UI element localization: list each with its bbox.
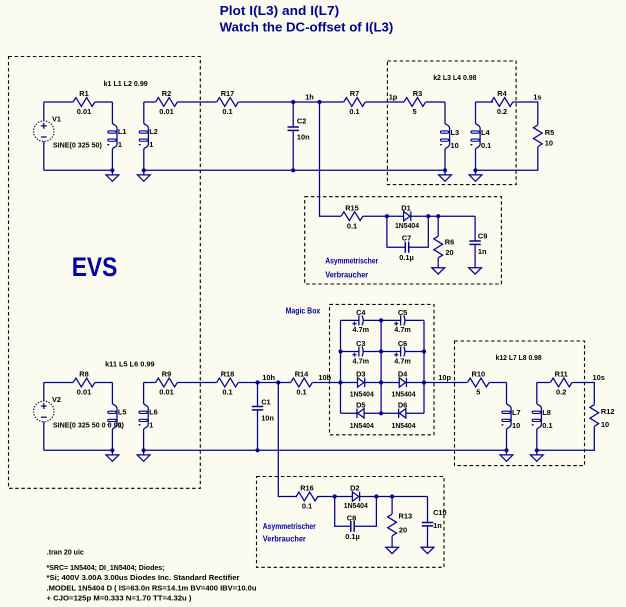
- svg-text:0.01: 0.01: [159, 107, 173, 116]
- diode D4: [381, 370, 424, 399]
- capacitor C6: [381, 339, 424, 365]
- svg-text:D2: D2: [350, 484, 359, 493]
- svg-text:R9: R9: [162, 370, 171, 379]
- svg-text:4.7m: 4.7m: [353, 356, 370, 365]
- model comment line 2: [47, 573, 240, 582]
- svg-text:0.1µ: 0.1µ: [345, 532, 360, 541]
- k1 coupling directive: [104, 79, 148, 88]
- capacitor C2: [288, 102, 311, 170]
- svg-text:1: 1: [149, 140, 153, 149]
- junction L7 bottom: [504, 448, 508, 452]
- resistor R9: [156, 370, 178, 397]
- svg-text:0.1: 0.1: [347, 221, 357, 230]
- svg-text:.MODEL 1N5404 D ( IS=63.0n RS: .MODEL 1N5404 D ( IS=63.0n RS=14.1m BV=4…: [47, 583, 257, 592]
- svg-text:D1: D1: [401, 203, 410, 212]
- svg-text:R14: R14: [295, 370, 309, 379]
- wire R8 to L5: [95, 382, 112, 384]
- junction 1h feed: [317, 100, 321, 104]
- svg-text:.tran 20 uic: .tran 20 uic: [47, 547, 84, 556]
- svg-text:*SRC= 1N5404; DI_1N5404; Diode: *SRC= 1N5404; DI_1N5404; Diodes;: [47, 563, 165, 572]
- Magic Box label: [286, 306, 321, 316]
- wire R16 to D2: [317, 496, 352, 498]
- svg-text:L5: L5: [118, 408, 127, 417]
- svg-text:10: 10: [601, 420, 609, 429]
- svg-text:10n: 10n: [261, 413, 274, 422]
- junction C1 top: [255, 380, 259, 384]
- svg-text:V2: V2: [52, 395, 61, 404]
- capacitor C1: [252, 383, 275, 451]
- wire L8 to R11: [537, 382, 550, 384]
- wire L6 to R9: [144, 382, 156, 384]
- svg-text:20: 20: [445, 248, 453, 257]
- wire V2 to R8: [44, 382, 73, 384]
- k2 coupling directive: [433, 73, 476, 82]
- resistor R18: [217, 370, 239, 397]
- svg-text:D4: D4: [398, 370, 408, 379]
- wire R9 to R18: [178, 382, 217, 384]
- wire R10 to L7: [489, 382, 506, 384]
- svg-text:0.1µ: 0.1µ: [399, 253, 414, 262]
- svg-text:R1: R1: [79, 89, 88, 98]
- resistor R13: [388, 497, 412, 543]
- svg-text:R2: R2: [162, 89, 171, 98]
- junction C8 left: [333, 494, 337, 498]
- svg-text:1N5404: 1N5404: [392, 390, 417, 399]
- ground at L4: [469, 170, 482, 181]
- junction L4 bottom: [473, 168, 477, 172]
- svg-text:R18: R18: [221, 370, 235, 379]
- svg-text:4.7m: 4.7m: [353, 325, 370, 334]
- svg-text:Asymmetrischer: Asymmetrischer: [325, 255, 379, 265]
- wire R14 to Magic Box: [313, 382, 341, 384]
- svg-text:1N5404: 1N5404: [392, 421, 417, 430]
- node 10s label: [593, 373, 605, 382]
- ground at R6: [432, 263, 445, 274]
- svg-text:R15: R15: [345, 203, 359, 212]
- wire D2 to C10: [360, 496, 428, 498]
- ground at R13: [386, 543, 399, 554]
- svg-text:1N5404: 1N5404: [350, 421, 375, 430]
- svg-text:0.1: 0.1: [542, 421, 552, 430]
- svg-text:C10: C10: [433, 508, 447, 517]
- node 10p label: [438, 373, 451, 382]
- wire L4 to R4: [476, 101, 494, 103]
- resistor R17: [217, 89, 239, 116]
- inductor L6: [138, 383, 158, 451]
- svg-text:R12: R12: [601, 407, 615, 416]
- magic box middle rail: [380, 320, 382, 413]
- inductor L4: [470, 102, 491, 170]
- svg-text:L4: L4: [481, 128, 491, 137]
- svg-text:R16: R16: [300, 484, 314, 493]
- bottom secondary rail: [144, 449, 507, 451]
- wire R1 to L1: [95, 101, 112, 103]
- diode D1: [395, 203, 420, 230]
- k11 coupling directive: [105, 360, 155, 369]
- voltage source V1: [34, 102, 103, 170]
- svg-text:L6: L6: [149, 408, 158, 417]
- resistor R4: [491, 89, 513, 116]
- dashed box k12 transformer: [455, 341, 585, 466]
- svg-text:SINE(0 325 50): SINE(0 325 50): [53, 140, 103, 149]
- dashed box k2 transformer: [387, 61, 516, 185]
- junction 10h feed: [276, 380, 280, 384]
- magic box right rail: [423, 320, 425, 413]
- resistor R12: [590, 405, 615, 429]
- dashed box EVS block: [9, 57, 201, 489]
- svg-text:k1 L1 L2 0.99: k1 L1 L2 0.99: [104, 79, 148, 88]
- svg-text:Plot I(L3) and I(L7): Plot I(L3) and I(L7): [220, 4, 340, 18]
- svg-text:R11: R11: [555, 370, 568, 379]
- svg-text:L7: L7: [512, 408, 521, 417]
- junction left rail row3: [338, 380, 342, 384]
- inductor L5: [107, 383, 127, 451]
- svg-text:L2: L2: [149, 127, 158, 136]
- junction C7 left: [385, 214, 389, 218]
- svg-text:R13: R13: [399, 512, 413, 521]
- resistor R7: [344, 89, 366, 116]
- svg-text:R4: R4: [497, 89, 507, 98]
- resistor R5: [533, 125, 554, 148]
- svg-text:4.7m: 4.7m: [394, 356, 411, 365]
- ground at L7: [500, 450, 513, 461]
- svg-text:10: 10: [545, 139, 553, 148]
- resistor R10: [468, 370, 490, 397]
- capacitor C8: [335, 497, 377, 542]
- svg-text:1n: 1n: [433, 521, 442, 530]
- junction right rail row2: [422, 349, 426, 353]
- svg-text:C4: C4: [356, 308, 366, 317]
- svg-text:Verbraucher: Verbraucher: [325, 269, 369, 279]
- junction R13 top: [390, 494, 394, 498]
- wire node 10h down to lower Verbraucher: [278, 383, 297, 497]
- node 1s label: [533, 93, 541, 102]
- resistor R3: [404, 89, 426, 116]
- tran directive: [47, 547, 84, 556]
- junction middle rail row2: [379, 349, 383, 353]
- svg-text:L1: L1: [118, 127, 127, 136]
- svg-text:Magic Box: Magic Box: [286, 306, 321, 316]
- junction C2 bottom: [291, 168, 295, 172]
- upper Verbraucher label: [325, 255, 379, 279]
- diode D5: [341, 401, 382, 430]
- svg-text:0.2: 0.2: [556, 388, 566, 397]
- inductor L2: [138, 102, 158, 170]
- k12 coupling directive: [496, 353, 542, 362]
- wire R17 to R7 through node 1h: [239, 101, 344, 103]
- svg-text:0.1: 0.1: [481, 141, 491, 150]
- svg-text:R3: R3: [413, 89, 422, 98]
- svg-text:10h: 10h: [262, 373, 275, 382]
- ground at L5: [106, 450, 119, 461]
- inductor L8: [531, 383, 552, 451]
- svg-text:L3: L3: [451, 128, 460, 137]
- inductor L1: [107, 102, 127, 170]
- dashed box lower Asymmetrischer Verbraucher: [257, 477, 445, 568]
- capacitor C10: [422, 497, 447, 543]
- wire V1 ground rail: [44, 169, 113, 171]
- wire R18 to R14: [239, 382, 291, 384]
- capacitor C5: [381, 308, 424, 334]
- svg-text:Verbraucher: Verbraucher: [263, 534, 307, 544]
- diode D3: [341, 370, 382, 399]
- junction L3 bottom: [443, 168, 447, 172]
- resistor R8: [73, 370, 95, 397]
- svg-text:Asymmetrischer: Asymmetrischer: [263, 521, 317, 531]
- svg-text:0.2: 0.2: [497, 107, 507, 116]
- svg-text:1h: 1h: [305, 93, 314, 102]
- wire R5 to L4 bottom: [476, 147, 538, 171]
- wire R15 to D1: [363, 215, 404, 217]
- capacitor C3: [341, 339, 382, 365]
- dashed box Magic Box: [330, 304, 435, 434]
- diode D6: [381, 401, 424, 430]
- wire V2 ground rail: [44, 449, 113, 451]
- node 10b label: [318, 373, 331, 382]
- svg-text:10: 10: [451, 141, 459, 150]
- voltage source V2: [34, 383, 125, 451]
- lower Verbraucher label: [263, 521, 317, 544]
- junction right rail row3: [422, 380, 426, 384]
- junction left rail row2: [338, 349, 342, 353]
- node 1h label: [305, 93, 314, 102]
- junction R6 top: [436, 214, 440, 218]
- svg-text:D3: D3: [356, 370, 365, 379]
- svg-text:k12 L7 L8 0.98: k12 L7 L8 0.98: [496, 353, 542, 362]
- svg-text:C9: C9: [478, 231, 487, 240]
- diode D2: [344, 484, 369, 511]
- model comment line 1: [47, 563, 165, 572]
- ground at L6: [137, 450, 150, 461]
- svg-text:0.01: 0.01: [159, 388, 173, 397]
- svg-text:0.01: 0.01: [77, 107, 91, 116]
- wire D1 to C9: [411, 215, 475, 217]
- wire R7 to R3: [366, 101, 405, 103]
- top secondary rail: [144, 169, 445, 171]
- title text line 2: [220, 20, 394, 34]
- svg-text:R17: R17: [221, 89, 235, 98]
- svg-text:0.1: 0.1: [302, 502, 312, 511]
- svg-text:Watch the DC-offset of I(L3): Watch the DC-offset of I(L3): [220, 20, 394, 34]
- svg-text:10b: 10b: [318, 373, 331, 382]
- title text line 1: [220, 4, 340, 18]
- svg-text:R5: R5: [545, 128, 554, 137]
- svg-text:C2: C2: [297, 116, 306, 125]
- resistor R1: [73, 89, 95, 116]
- svg-text:0.1: 0.1: [349, 107, 359, 116]
- junction L1 bottom: [110, 168, 114, 172]
- svg-text:5: 5: [476, 388, 480, 397]
- ground at L3: [439, 170, 452, 181]
- svg-text:1N5404: 1N5404: [344, 501, 369, 510]
- svg-text:10s: 10s: [593, 373, 605, 382]
- svg-text:1: 1: [118, 420, 122, 429]
- svg-text:10n: 10n: [297, 132, 310, 141]
- wire R12 to L8 bottom: [537, 427, 595, 451]
- svg-text:0.1: 0.1: [296, 388, 306, 397]
- svg-text:C7: C7: [402, 233, 411, 242]
- svg-text:R8: R8: [79, 370, 88, 379]
- ground at C9: [469, 263, 482, 274]
- svg-text:k11 L5 L6 0.99: k11 L5 L6 0.99: [105, 360, 155, 369]
- capacitor C7: [387, 216, 428, 262]
- svg-text:*Si; 400V 3.00A 3.00us Di: *Si; 400V 3.00A 3.00us Diodes Inc. Stand…: [47, 573, 240, 582]
- node 10h label: [262, 373, 275, 382]
- svg-text:D5: D5: [356, 401, 365, 410]
- svg-text:20: 20: [399, 526, 407, 535]
- svg-text:1: 1: [149, 420, 153, 429]
- junction L8 bottom: [535, 448, 539, 452]
- svg-text:R10: R10: [472, 370, 486, 379]
- resistor R14: [291, 370, 313, 397]
- svg-text:+ CJO=125p M=0.333 N=1.70 TT=: + CJO=125p M=0.333 N=1.70 TT=4.32u ): [47, 594, 193, 603]
- wire V1 to R1: [44, 101, 73, 103]
- capacitor C4: [341, 308, 382, 334]
- junction middle rail row3: [379, 380, 383, 384]
- junction C8 right: [374, 494, 378, 498]
- svg-text:R7: R7: [350, 89, 359, 98]
- junction L5 bottom: [110, 448, 114, 452]
- resistor R6: [434, 216, 454, 263]
- dashed box upper Asymmetrischer Verbraucher: [305, 197, 502, 284]
- wire Magic Box to R10: [424, 382, 467, 384]
- wire R11 to R12: [572, 383, 594, 405]
- svg-text:D6: D6: [398, 401, 407, 410]
- ground at L1: [106, 170, 119, 181]
- resistor R2: [156, 89, 178, 116]
- wire R3 to L3: [426, 101, 445, 103]
- svg-text:1N5404: 1N5404: [395, 221, 420, 230]
- svg-text:1N5404: 1N5404: [350, 390, 375, 399]
- resistor R15: [341, 203, 363, 230]
- wire L2 to R2: [144, 101, 156, 103]
- wire R2 to R17: [178, 101, 217, 103]
- wire R4 to R5: [513, 102, 538, 125]
- svg-text:1p: 1p: [389, 93, 398, 102]
- svg-text:1: 1: [118, 140, 122, 149]
- junction middle rail row4: [379, 411, 383, 415]
- wire node 1h down to upper Verbraucher: [320, 102, 342, 216]
- svg-text:10: 10: [512, 421, 520, 430]
- svg-text:C5: C5: [398, 308, 407, 317]
- model directive line 4: [47, 594, 193, 603]
- svg-text:L8: L8: [542, 408, 551, 417]
- capacitor C9: [469, 216, 487, 263]
- svg-text:C1: C1: [261, 397, 270, 406]
- ground at C10: [421, 543, 434, 554]
- svg-text:4.7m: 4.7m: [394, 325, 411, 334]
- svg-text:C8: C8: [347, 514, 356, 523]
- junction C7 right: [426, 214, 430, 218]
- ground at L8: [530, 450, 543, 461]
- svg-text:k2 L3 L4 0.98: k2 L3 L4 0.98: [433, 73, 476, 82]
- node 1p label: [389, 93, 398, 102]
- svg-text:5: 5: [412, 107, 416, 116]
- model directive line 3: [47, 583, 257, 592]
- resistor R11: [550, 370, 572, 397]
- svg-text:C6: C6: [398, 339, 407, 348]
- svg-text:V1: V1: [52, 115, 61, 124]
- svg-text:EVS: EVS: [72, 252, 118, 282]
- ground at L2: [137, 170, 150, 181]
- EVS label: [72, 252, 118, 282]
- svg-text:1s: 1s: [533, 93, 541, 102]
- junction L2 bottom: [142, 168, 146, 172]
- svg-text:0.1: 0.1: [222, 388, 232, 397]
- inductor L3: [440, 102, 460, 170]
- svg-text:R6: R6: [445, 237, 454, 246]
- svg-text:C3: C3: [356, 339, 365, 348]
- junction C1 bottom: [255, 448, 259, 452]
- inductor L7: [501, 383, 521, 451]
- svg-text:1n: 1n: [478, 247, 487, 256]
- svg-text:0.01: 0.01: [77, 388, 91, 397]
- junction C2 top: [291, 100, 295, 104]
- svg-text:0.1: 0.1: [222, 107, 232, 116]
- svg-text:10p: 10p: [438, 373, 451, 382]
- resistor R16: [296, 484, 318, 511]
- magic box left rail: [340, 320, 342, 413]
- junction middle rail row1: [379, 318, 383, 322]
- junction L6 bottom: [142, 448, 146, 452]
